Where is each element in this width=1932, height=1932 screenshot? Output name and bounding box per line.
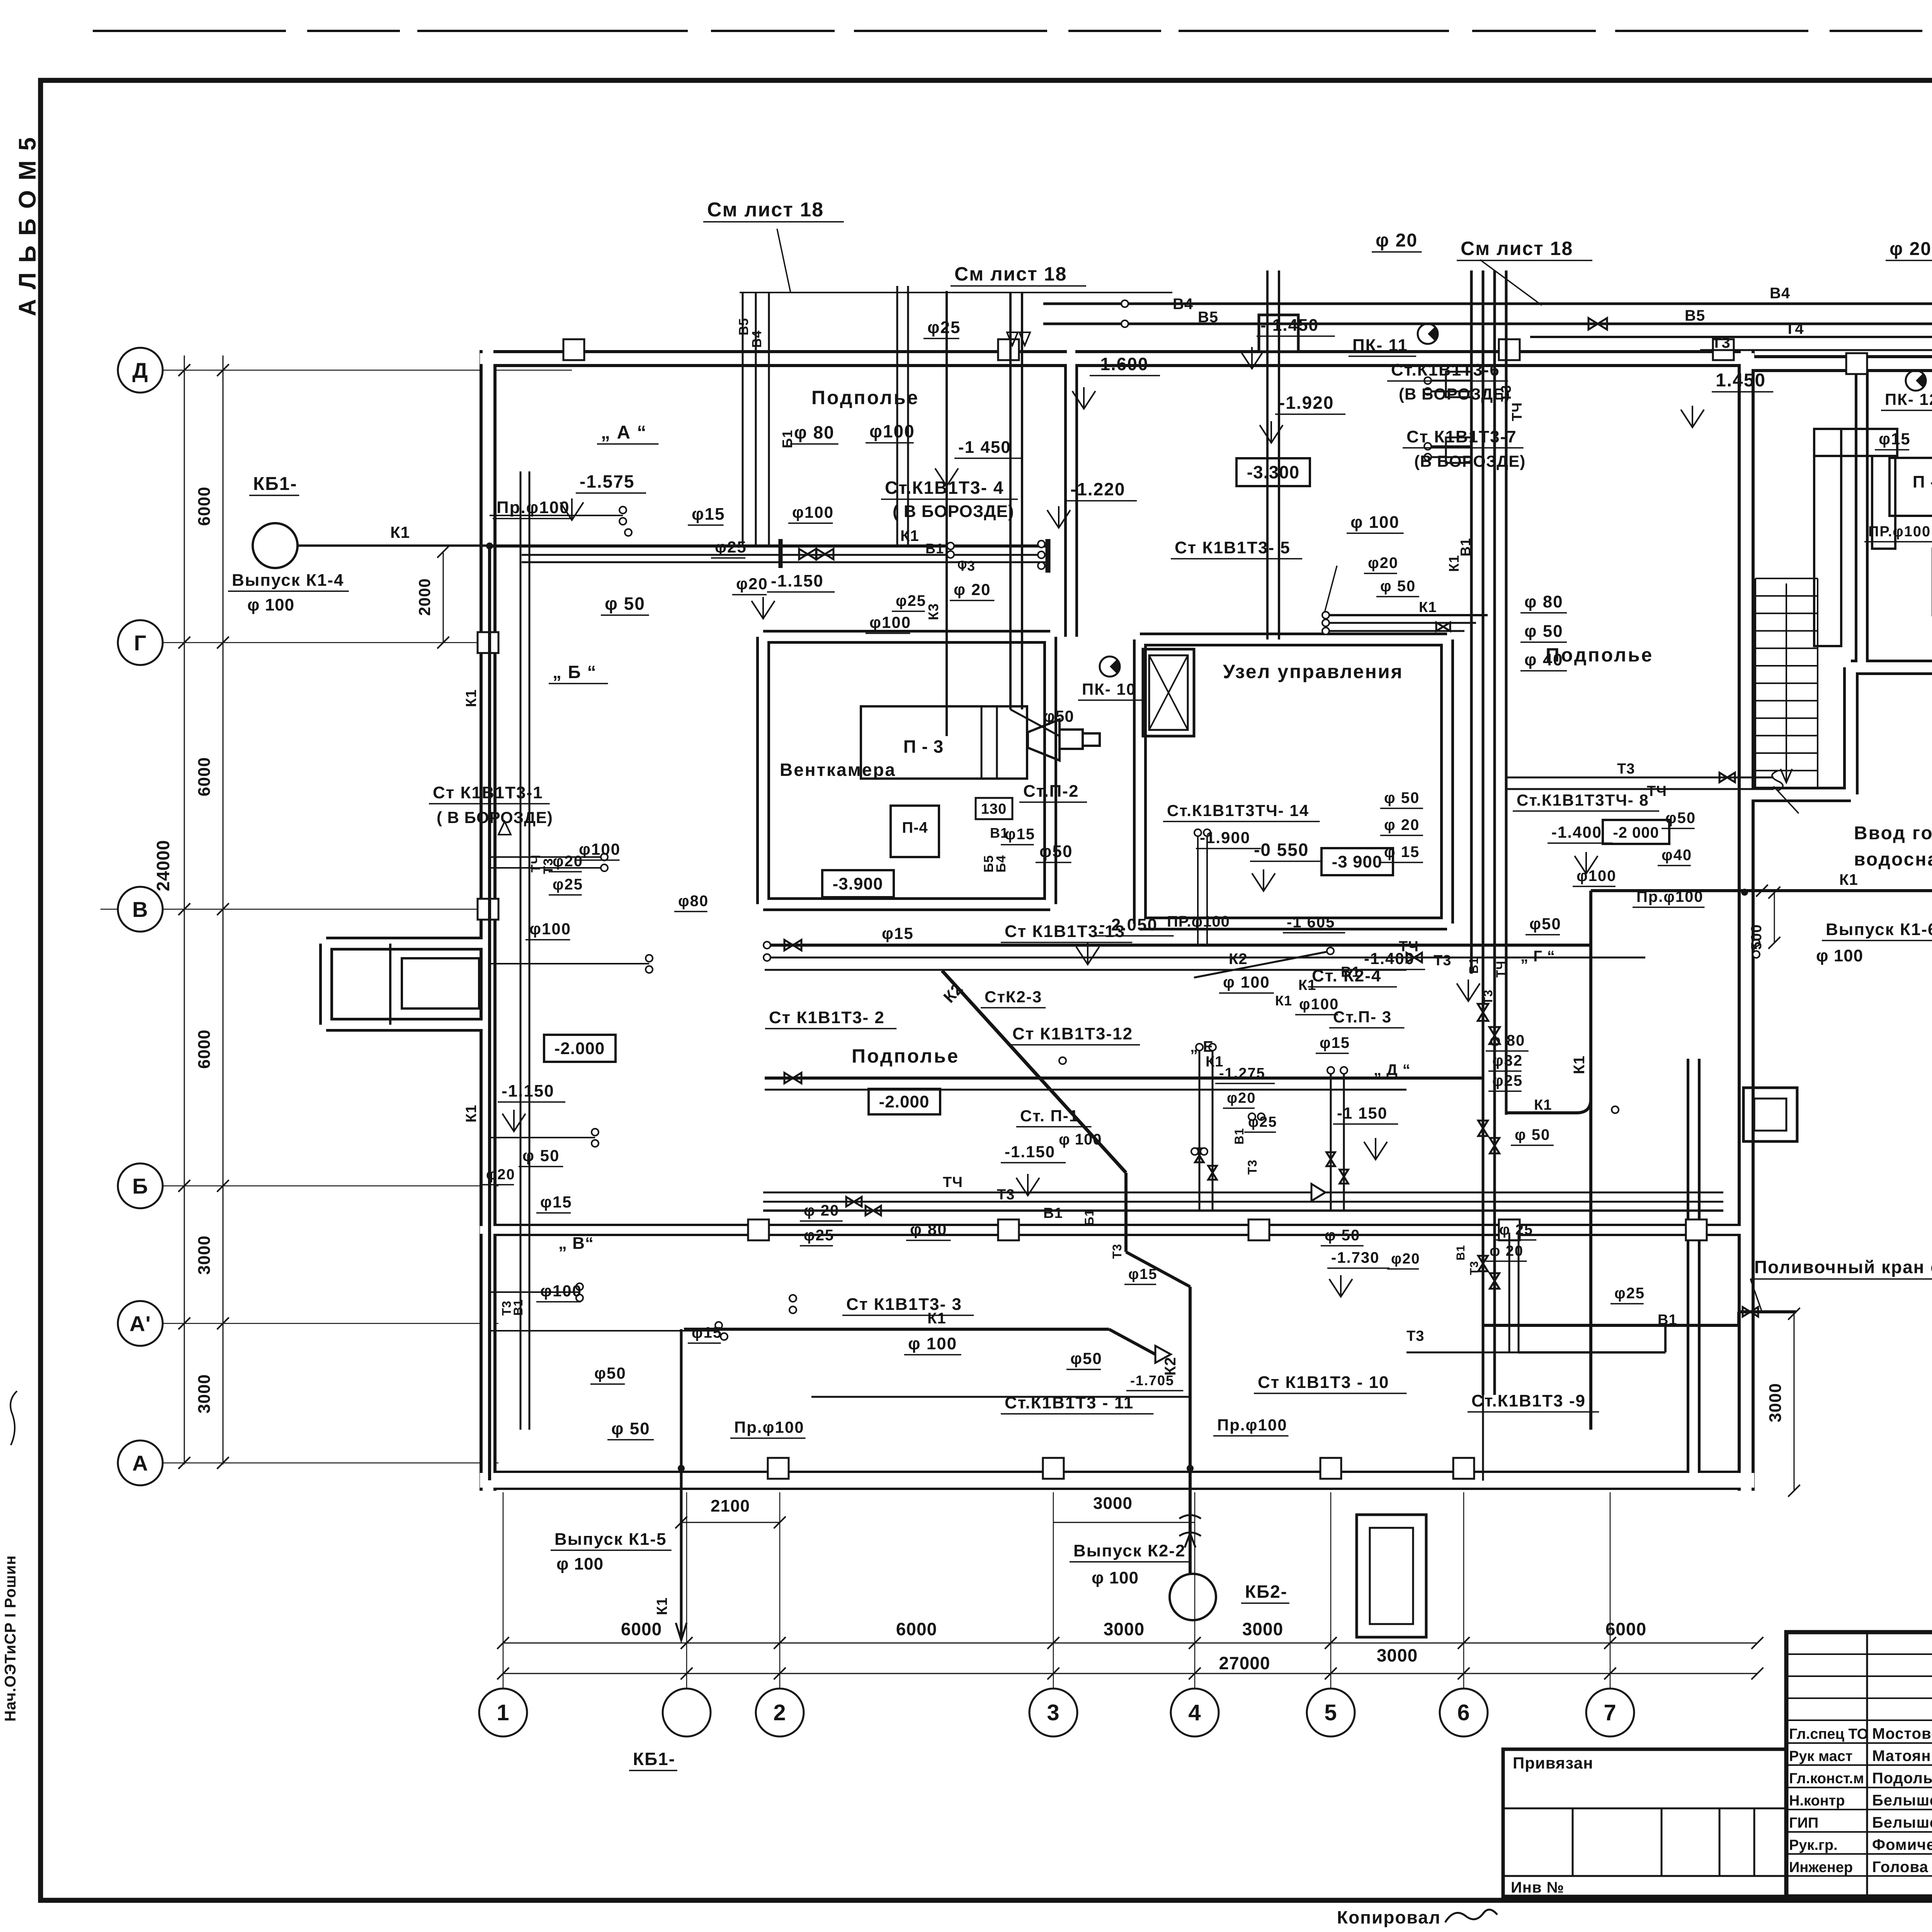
svg-text:φ20: φ20 bbox=[553, 853, 583, 870]
svg-text:3000: 3000 bbox=[1093, 1494, 1133, 1513]
svg-text:Т3: Т3 bbox=[1468, 1261, 1481, 1275]
svg-text:φ25: φ25 bbox=[1492, 1072, 1523, 1089]
svg-text:ПР.φ100: ПР.φ100 bbox=[1868, 524, 1931, 540]
svg-text:-2.000: -2.000 bbox=[879, 1092, 930, 1111]
svg-text:„ А “: „ А “ bbox=[601, 422, 647, 443]
svg-text:27000: 27000 bbox=[1219, 1653, 1270, 1673]
svg-text:Рук маст: Рук маст bbox=[1789, 1748, 1853, 1765]
svg-text:ПК- 12: ПК- 12 bbox=[1885, 390, 1932, 408]
svg-text:φ25: φ25 bbox=[553, 876, 583, 893]
svg-text:2000: 2000 bbox=[415, 578, 434, 616]
svg-text:φ100: φ100 bbox=[540, 1282, 582, 1300]
svg-text:Матоян: Матоян bbox=[1872, 1748, 1931, 1765]
svg-text:( В БОРОЗДЕ): ( В БОРОЗДЕ) bbox=[437, 808, 553, 827]
svg-text:Пр.φ100: Пр.φ100 bbox=[1636, 888, 1704, 905]
svg-text:Ст.К1В1Т3- 4: Ст.К1В1Т3- 4 bbox=[885, 478, 1004, 498]
svg-text:Т3: Т3 bbox=[958, 558, 975, 574]
svg-text:Б: Б bbox=[132, 1174, 148, 1198]
svg-text:Т4: Т4 bbox=[1785, 320, 1804, 337]
svg-text:К1: К1 bbox=[1275, 993, 1292, 1009]
svg-text:5: 5 bbox=[1324, 1700, 1337, 1725]
svg-text:φ100: φ100 bbox=[579, 840, 621, 858]
svg-text:φ25: φ25 bbox=[804, 1227, 834, 1244]
svg-text:φ100: φ100 bbox=[869, 613, 911, 631]
svg-text:Т3: Т3 bbox=[1406, 1328, 1424, 1344]
svg-text:φ 20: φ 20 bbox=[1490, 1243, 1524, 1259]
svg-text:„ Г “: „ Г “ bbox=[1520, 948, 1555, 965]
svg-text:φ15: φ15 bbox=[1320, 1034, 1350, 1051]
svg-text:φ50: φ50 bbox=[594, 1364, 626, 1382]
svg-text:φ 20: φ 20 bbox=[1889, 239, 1932, 259]
svg-text:Т3: Т3 bbox=[1245, 1160, 1259, 1175]
svg-text:φ15: φ15 bbox=[692, 1324, 722, 1341]
svg-text:φ 20: φ 20 bbox=[954, 580, 991, 599]
svg-text:Ст. П-1: Ст. П-1 bbox=[1020, 1107, 1079, 1125]
svg-text:φ15: φ15 bbox=[1128, 1266, 1157, 1282]
svg-text:К2: К2 bbox=[1229, 951, 1248, 968]
svg-text:-1 150: -1 150 bbox=[1337, 1104, 1388, 1122]
svg-text:-1.730: -1.730 bbox=[1331, 1249, 1379, 1266]
svg-text:Д: Д bbox=[133, 358, 148, 383]
svg-text:КБ2-: КБ2- bbox=[1245, 1582, 1287, 1602]
svg-text:К1: К1 bbox=[1571, 1055, 1588, 1074]
svg-text:В5: В5 bbox=[736, 318, 751, 335]
svg-text:См лист 18: См лист 18 bbox=[954, 263, 1067, 285]
svg-text:Копировал: Копировал bbox=[1337, 1907, 1441, 1927]
svg-text:Б1: Б1 bbox=[1082, 1209, 1096, 1226]
svg-text:К1: К1 bbox=[1419, 599, 1437, 616]
svg-text:φ 50: φ 50 bbox=[1524, 622, 1563, 641]
svg-text:φ25: φ25 bbox=[1248, 1114, 1277, 1130]
svg-text:-1.150: -1.150 bbox=[771, 571, 824, 590]
svg-text:Б4: Б4 bbox=[994, 855, 1009, 872]
svg-text:φ 80: φ 80 bbox=[910, 1220, 947, 1238]
svg-text:А Л Ь Б О М 5: А Л Ь Б О М 5 bbox=[14, 136, 41, 316]
svg-text:φ 20: φ 20 bbox=[1376, 230, 1418, 251]
svg-text:Гл.спец ТО: Гл.спец ТО bbox=[1789, 1726, 1868, 1742]
svg-text:„ В“: „ В“ bbox=[558, 1234, 594, 1253]
svg-text:-1 605: -1 605 bbox=[1287, 914, 1335, 931]
svg-text:φ 80: φ 80 bbox=[794, 422, 835, 442]
svg-text:φ100: φ100 bbox=[869, 421, 915, 441]
svg-text:φ15: φ15 bbox=[882, 924, 914, 942]
svg-text:Подполье: Подполье bbox=[852, 1045, 959, 1067]
svg-text:φ 20: φ 20 bbox=[804, 1202, 839, 1219]
svg-text:-1 450: -1 450 bbox=[958, 438, 1011, 457]
svg-text:φ80: φ80 bbox=[678, 893, 709, 910]
svg-text:Привязан: Привязан bbox=[1513, 1754, 1593, 1772]
svg-text:φ 50: φ 50 bbox=[605, 594, 645, 614]
svg-text:К1: К1 bbox=[654, 1597, 670, 1615]
svg-text:Венткамера: Венткамера bbox=[780, 760, 896, 780]
svg-text:6: 6 bbox=[1457, 1700, 1470, 1725]
svg-text:6000: 6000 bbox=[1605, 1619, 1646, 1639]
svg-text:3000: 3000 bbox=[1377, 1645, 1418, 1665]
svg-text:Т3: Т3 bbox=[1434, 952, 1451, 969]
svg-text:К3: К3 bbox=[925, 603, 941, 620]
svg-text:К1: К1 bbox=[927, 1310, 946, 1327]
svg-text:Ст.К1В1Т3-6: Ст.К1В1Т3-6 bbox=[1391, 361, 1500, 379]
svg-text:П - 3: П - 3 bbox=[903, 736, 944, 757]
svg-text:„ Д “: „ Д “ bbox=[1374, 1061, 1411, 1078]
svg-text:6000: 6000 bbox=[896, 1619, 937, 1639]
svg-text:КБ1-: КБ1- bbox=[633, 1749, 675, 1769]
svg-text:φ25: φ25 bbox=[896, 592, 926, 609]
svg-text:-1.220: -1.220 bbox=[1070, 479, 1125, 499]
svg-text:130: 130 bbox=[981, 801, 1007, 817]
svg-text:Ст К1В1Т3 - 10: Ст К1В1Т3 - 10 bbox=[1258, 1373, 1389, 1392]
svg-text:φ 100: φ 100 bbox=[1092, 1568, 1139, 1587]
svg-text:2100: 2100 bbox=[711, 1497, 750, 1515]
svg-text:А': А' bbox=[129, 1311, 151, 1336]
svg-text:Ввод горячего: Ввод горячего bbox=[1854, 823, 1932, 844]
svg-text:Ст.К1В1Т3 -9: Ст.К1В1Т3 -9 bbox=[1471, 1391, 1586, 1410]
svg-text:3000: 3000 bbox=[195, 1235, 214, 1275]
svg-text:Выпуск К2-2: Выпуск К2-2 bbox=[1073, 1541, 1185, 1560]
svg-text:Т3: Т3 bbox=[1498, 385, 1514, 402]
svg-text:-1.900: -1.900 bbox=[1200, 828, 1250, 847]
svg-text:Поливочный кран φ25: Поливочный кран φ25 bbox=[1754, 1257, 1932, 1277]
svg-text:„ Е: „ Е bbox=[1190, 1038, 1214, 1055]
svg-text:(В БОРОЗДЕ): (В БОРОЗДЕ) bbox=[1399, 385, 1510, 403]
svg-text:φ100: φ100 bbox=[1577, 867, 1616, 884]
svg-text:„ Б “: „ Б “ bbox=[553, 662, 597, 682]
svg-text:ТЧ: ТЧ bbox=[1509, 402, 1525, 421]
svg-text:Ст.П-2: Ст.П-2 bbox=[1023, 782, 1079, 801]
svg-text:Ст К1В1Т3-13: Ст К1В1Т3-13 bbox=[1005, 922, 1125, 941]
svg-text:φ15: φ15 bbox=[1879, 430, 1911, 448]
svg-text:2: 2 bbox=[773, 1700, 786, 1725]
svg-text:1.450: 1.450 bbox=[1716, 370, 1766, 391]
svg-text:7: 7 bbox=[1604, 1700, 1616, 1725]
svg-text:φ20: φ20 bbox=[486, 1167, 515, 1183]
svg-text:-1.400: -1.400 bbox=[1551, 823, 1602, 841]
svg-text:-1.575: -1.575 bbox=[580, 471, 634, 492]
svg-text:А: А bbox=[132, 1451, 148, 1475]
svg-text:Узел управления: Узел управления bbox=[1223, 661, 1403, 682]
svg-text:- 1.450: - 1.450 bbox=[1260, 316, 1319, 335]
svg-text:Голова: Голова bbox=[1872, 1859, 1929, 1876]
svg-text:Выпуск К1-5: Выпуск К1-5 bbox=[554, 1530, 667, 1549]
svg-text:φ 100: φ 100 bbox=[1350, 513, 1400, 532]
svg-text:3000: 3000 bbox=[1766, 1383, 1785, 1422]
svg-text:Белышева: Белышева bbox=[1872, 1814, 1932, 1831]
svg-text:Выпуск К1-6: Выпуск К1-6 bbox=[1826, 920, 1932, 939]
svg-text:К1: К1 bbox=[900, 527, 919, 544]
svg-text:В1: В1 bbox=[1232, 1128, 1246, 1145]
svg-text:ТЧ: ТЧ bbox=[943, 1174, 963, 1190]
svg-text:В1: В1 bbox=[1043, 1205, 1063, 1221]
svg-text:φ 50: φ 50 bbox=[1325, 1227, 1360, 1244]
svg-text:φ15: φ15 bbox=[1005, 826, 1035, 843]
svg-text:φ 80: φ 80 bbox=[1524, 592, 1563, 611]
svg-text:П - 6: П - 6 bbox=[1913, 473, 1932, 492]
svg-text:Выпуск К1-4: Выпуск К1-4 bbox=[232, 571, 344, 590]
svg-text:ПК- 10: ПК- 10 bbox=[1082, 680, 1136, 698]
svg-text:φ 100: φ 100 bbox=[1059, 1131, 1102, 1148]
svg-text:φ100: φ100 bbox=[529, 920, 571, 938]
svg-text:φ40: φ40 bbox=[1662, 847, 1692, 864]
svg-text:φ 25: φ 25 bbox=[1499, 1222, 1533, 1238]
svg-text:φ20: φ20 bbox=[736, 575, 768, 593]
svg-text:φ32: φ32 bbox=[1492, 1052, 1523, 1069]
svg-text:φ 50: φ 50 bbox=[1384, 789, 1420, 806]
svg-text:КБ1-: КБ1- bbox=[253, 474, 297, 494]
svg-text:В1: В1 bbox=[511, 1299, 525, 1316]
svg-text:Ст.К1В1Т3 - 11: Ст.К1В1Т3 - 11 bbox=[1005, 1393, 1134, 1412]
svg-text:-3.900: -3.900 bbox=[833, 874, 883, 893]
svg-text:φ 50: φ 50 bbox=[1380, 578, 1416, 595]
svg-text:-0 550: -0 550 bbox=[1254, 840, 1309, 860]
svg-text:φ 15: φ 15 bbox=[1384, 844, 1420, 861]
svg-text:Ст К1В1Т3-1: Ст К1В1Т3-1 bbox=[433, 783, 543, 802]
svg-text:П-4: П-4 bbox=[902, 819, 928, 836]
svg-text:В1: В1 bbox=[1658, 1312, 1677, 1328]
svg-text:3000: 3000 bbox=[1242, 1619, 1283, 1639]
svg-text:Инженер: Инженер bbox=[1789, 1859, 1853, 1876]
svg-text:Пр.φ100: Пр.φ100 bbox=[734, 1418, 804, 1436]
svg-text:φ20: φ20 bbox=[1368, 554, 1398, 571]
svg-text:φ 50: φ 50 bbox=[611, 1419, 650, 1438]
svg-text:Рук.гр.: Рук.гр. bbox=[1789, 1837, 1838, 1854]
svg-text:ПК- 11: ПК- 11 bbox=[1352, 336, 1408, 355]
svg-text:Пр.φ100: Пр.φ100 bbox=[497, 498, 570, 517]
svg-text:Пр.φ100: Пр.φ100 bbox=[1217, 1416, 1287, 1434]
svg-text:К1: К1 bbox=[1534, 1097, 1552, 1113]
svg-text:Ст К1В1Т3-12: Ст К1В1Т3-12 bbox=[1012, 1024, 1133, 1043]
svg-text:К1: К1 bbox=[390, 523, 410, 541]
svg-text:-1.920: -1.920 bbox=[1279, 393, 1334, 413]
svg-text:φ15: φ15 bbox=[540, 1193, 572, 1211]
svg-text:6000: 6000 bbox=[621, 1619, 662, 1639]
svg-text:К1: К1 bbox=[1839, 871, 1858, 888]
svg-text:φ20: φ20 bbox=[1227, 1090, 1256, 1106]
svg-text:К1: К1 bbox=[463, 689, 480, 707]
svg-text:К1: К1 bbox=[463, 1105, 480, 1122]
svg-text:Подполье: Подполье bbox=[1546, 644, 1653, 666]
svg-text:В5: В5 bbox=[1685, 307, 1705, 324]
svg-text:φ50: φ50 bbox=[1529, 915, 1561, 933]
svg-text:-1.600: -1.600 bbox=[1094, 354, 1148, 374]
svg-text:Белышева: Белышева bbox=[1872, 1792, 1932, 1809]
svg-text:φ 50: φ 50 bbox=[1515, 1126, 1550, 1143]
svg-text:-2.000: -2.000 bbox=[554, 1039, 605, 1058]
svg-text:Ст.П- 3: Ст.П- 3 bbox=[1333, 1008, 1392, 1026]
svg-text:Ст К1В1Т3- 2: Ст К1В1Т3- 2 bbox=[769, 1008, 885, 1027]
svg-text:ГИП: ГИП bbox=[1789, 1815, 1818, 1831]
svg-text:1: 1 bbox=[497, 1700, 509, 1725]
svg-text:водоснабжения: водоснабжения bbox=[1854, 849, 1932, 870]
svg-text:φ 100: φ 100 bbox=[247, 595, 294, 614]
svg-text:В5: В5 bbox=[1198, 309, 1218, 326]
svg-text:Инв №: Инв № bbox=[1511, 1879, 1564, 1896]
svg-text:Т3: Т3 bbox=[1110, 1244, 1124, 1259]
svg-text:φ25: φ25 bbox=[927, 318, 961, 337]
svg-text:-1.150: -1.150 bbox=[1005, 1143, 1055, 1161]
svg-text:φ25: φ25 bbox=[715, 538, 747, 556]
svg-text:-3 900: -3 900 bbox=[1332, 852, 1383, 871]
svg-text:СтК2-3: СтК2-3 bbox=[985, 988, 1042, 1006]
svg-text:-1.275: -1.275 bbox=[1219, 1065, 1265, 1082]
svg-text:Ст К1В1Т3- 5: Ст К1В1Т3- 5 bbox=[1175, 538, 1291, 557]
svg-text:Гл.конст.м: Гл.конст.м bbox=[1789, 1770, 1864, 1787]
svg-text:-1.150: -1.150 bbox=[502, 1082, 554, 1100]
svg-text:φ20: φ20 bbox=[1391, 1251, 1420, 1267]
svg-text:Фомичев: Фомичев bbox=[1872, 1837, 1932, 1854]
svg-text:Ст.К1В1Т3ТЧ- 8: Ст.К1В1Т3ТЧ- 8 bbox=[1517, 791, 1649, 809]
svg-text:3: 3 bbox=[1047, 1700, 1060, 1725]
svg-text:Нач.ОЭТиСР I Рошин: Нач.ОЭТиСР I Рошин bbox=[2, 1555, 19, 1722]
svg-text:К1: К1 bbox=[1446, 555, 1462, 572]
svg-text:-2 000: -2 000 bbox=[1613, 824, 1659, 841]
svg-text:φ50: φ50 bbox=[1039, 842, 1073, 861]
svg-text:Ст К1В1Т3-7: Ст К1В1Т3-7 bbox=[1406, 427, 1517, 446]
svg-text:24000: 24000 bbox=[153, 840, 173, 891]
svg-text:К2: К2 bbox=[1162, 1357, 1179, 1376]
svg-text:φ 100: φ 100 bbox=[1223, 973, 1270, 991]
svg-text:Мостовой: Мостовой bbox=[1872, 1725, 1932, 1742]
svg-text:ПР.φ100: ПР.φ100 bbox=[1167, 913, 1230, 930]
svg-text:Т3: Т3 bbox=[997, 1187, 1015, 1203]
svg-text:(В БОРОЗДЕ): (В БОРОЗДЕ) bbox=[1414, 452, 1526, 470]
svg-text:Ст.К1В1Т3ТЧ- 14: Ст.К1В1Т3ТЧ- 14 bbox=[1167, 801, 1309, 820]
svg-text:6000: 6000 bbox=[195, 757, 214, 796]
svg-text:( В БОРОЗДЕ): ( В БОРОЗДЕ) bbox=[893, 502, 1014, 521]
svg-text:Г: Г bbox=[134, 631, 147, 655]
svg-text:φ 50: φ 50 bbox=[522, 1146, 560, 1165]
svg-text:6000: 6000 bbox=[195, 486, 214, 526]
svg-text:Т3: Т3 bbox=[1481, 990, 1495, 1005]
svg-text:В1: В1 bbox=[1454, 1245, 1467, 1260]
svg-text:φ 100: φ 100 bbox=[556, 1554, 604, 1573]
svg-text:φ 100: φ 100 bbox=[908, 1334, 957, 1353]
svg-text:3000: 3000 bbox=[195, 1374, 214, 1413]
svg-text:См лист 18: См лист 18 bbox=[707, 199, 824, 221]
svg-text:φ25: φ25 bbox=[1614, 1285, 1645, 1302]
svg-text:φ50: φ50 bbox=[1070, 1349, 1102, 1367]
svg-text:Т3: Т3 bbox=[1617, 761, 1635, 777]
svg-text:Т3: Т3 bbox=[1712, 334, 1731, 351]
svg-text:4: 4 bbox=[1188, 1700, 1201, 1725]
svg-text:В: В bbox=[132, 897, 148, 922]
svg-text:В4: В4 bbox=[1770, 285, 1790, 302]
svg-text:φ50: φ50 bbox=[1043, 707, 1074, 725]
svg-text:φ 20: φ 20 bbox=[1384, 816, 1420, 833]
svg-text:В4: В4 bbox=[750, 330, 764, 348]
svg-text:500: 500 bbox=[1748, 924, 1765, 950]
svg-text:ТЧ: ТЧ bbox=[1647, 783, 1667, 799]
svg-text:В1: В1 bbox=[1467, 957, 1481, 974]
svg-text:3000: 3000 bbox=[1104, 1619, 1145, 1639]
svg-text:φ15: φ15 bbox=[692, 505, 725, 524]
svg-text:В1: В1 bbox=[925, 541, 944, 556]
svg-text:См лист 18: См лист 18 bbox=[1461, 238, 1573, 259]
svg-text:-3.300: -3.300 bbox=[1247, 462, 1299, 482]
svg-text:ТЧ: ТЧ bbox=[1494, 961, 1508, 978]
svg-text:6000: 6000 bbox=[195, 1029, 214, 1069]
svg-text:-1.400: -1.400 bbox=[1364, 949, 1415, 968]
svg-text:Подольский: Подольский bbox=[1872, 1770, 1932, 1787]
svg-text:В1: В1 bbox=[1458, 538, 1473, 556]
svg-text:φ 100: φ 100 bbox=[1816, 946, 1863, 965]
svg-text:Б1: Б1 bbox=[779, 430, 795, 448]
svg-text:φ 80: φ 80 bbox=[1490, 1032, 1525, 1049]
svg-text:В4: В4 bbox=[1173, 296, 1193, 313]
svg-text:Н.контр: Н.контр bbox=[1789, 1793, 1845, 1809]
svg-text:Подполье: Подполье bbox=[811, 387, 919, 408]
svg-text:φ100: φ100 bbox=[792, 503, 834, 521]
